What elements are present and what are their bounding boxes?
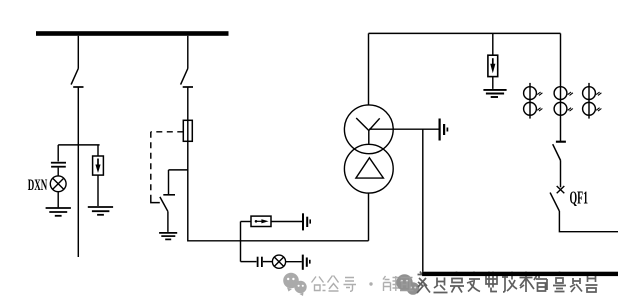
lamp HL (circle with X) [272,255,285,268]
surge arrester F3 (box with down arrow) [488,55,498,76]
delta symbol [356,158,384,178]
fuse FU1 [183,120,192,141]
CT TA-a core1 [524,87,537,100]
earthing switch fixed contact [163,194,175,196]
breaker QF1 lower blade [550,193,559,211]
disconnect switch QS1 fixed contact [73,86,83,88]
wire feeder2 drop from busbar [187,36,189,69]
surge arrester F1 (box with down arrow) [93,156,104,175]
surge arrester F2 (box with right arrow) [251,216,271,226]
ground (rotated, transformer neutral) [440,119,448,141]
CT TA-b core1 [554,87,567,100]
wire capacitor to lamp HL [263,261,273,263]
CT TA-b secondary marks [568,92,573,95]
wire to indicator lamp branch [241,261,257,263]
wire arrester F2 to ground [271,221,302,223]
lamp DXN (circle with X) [50,176,66,192]
ground (earthing switch) [159,233,177,240]
wire PT branch horizontal [58,144,99,146]
wire CT phase A stub [529,83,531,119]
disconnect switch QS1 blade [71,69,78,85]
wire arrester branch drop [97,145,99,156]
capacitor C1 [51,163,66,167]
wire CT phase C stub [588,83,590,119]
CT TA-a core2 [524,102,537,115]
wire feeder1 drop from busbar [77,36,79,69]
wechat icon A [283,273,306,296]
CT TA-c core1 [583,87,596,100]
wire arrester F3 to ground [492,77,494,89]
wire feeder2 stem to fuse [187,87,189,120]
wire earthing switch tap [169,169,188,171]
wire LV top horizontal [369,32,561,34]
ground (rotated, lamp branch) [303,255,310,270]
ground (arrester F3) [483,90,506,97]
watermark [283,272,597,297]
HV busbar [36,31,229,36]
svg-text:QF1: QF1 [570,187,589,208]
node junction middle branch [240,222,242,262]
wire arrester F3 drop [492,33,494,55]
watermark text dark jumbled part [417,272,598,294]
wire interlock corner to blade [151,196,160,203]
wire lamp HL to ground [286,261,302,263]
wire interlock dashed horizontal [151,131,184,133]
wire neutral drop to LV busbar [422,129,424,272]
wire feeder1 main stem [77,87,79,257]
wire feeder2 stem to LV link [188,141,369,241]
wire LV main drop [560,33,562,141]
wire earthing switch to ground [167,211,169,232]
wire transformer bottom [368,193,370,241]
CT TA-b core2 [554,102,567,115]
wire earthing switch stem [168,170,170,194]
wire interlock dashed vertical [150,132,152,196]
wire QF1 bottom stem [559,211,618,232]
transformer T1 secondary winding (wye) [344,105,393,154]
breaker QF1 contact cross [557,186,565,193]
wire neutral horizontal [369,128,439,130]
wire arrester to ground [97,175,99,206]
ground (arrester branch) [88,207,113,215]
disconnect switch QS2 fixed contact [183,86,193,88]
earthing switch blade [160,197,168,211]
wire transformer top [368,33,370,105]
transformer T1 primary winding (delta) [344,144,393,193]
watermark text light part [312,276,400,292]
wire to LV arrester [241,221,252,223]
CT TA-c core2 [583,102,596,115]
wire lamp to ground [57,192,59,208]
LV busbar [422,272,618,276]
disconnect switch QS2 blade [181,69,188,85]
watermark text glyph 配 (light over icon B) [400,278,414,291]
wye symbol [356,118,380,144]
wire capacitor to lamp [57,168,59,176]
wechat icon B [396,274,419,295]
breaker QF1 upper blade [553,144,561,160]
ground (rotated, arrester F2) [303,213,310,230]
capacitor C2 [258,257,262,267]
ground (lamp branch) [46,208,71,216]
CT TA-a secondary marks [537,92,542,95]
wire QF1 mid stem [560,161,562,188]
wire capacitor branch drop [57,145,59,162]
svg-text:DXN: DXN [28,176,48,194]
breaker QF1 fixed contact top [556,141,566,143]
CT TA-c secondary marks [596,92,601,95]
